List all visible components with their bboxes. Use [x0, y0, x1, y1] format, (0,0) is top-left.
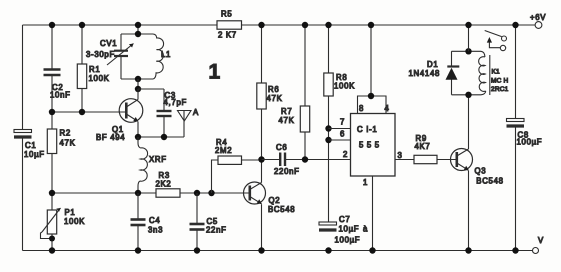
svg-text:10µF: 10µF	[339, 225, 360, 234]
svg-text:8: 8	[359, 104, 364, 113]
resistor R8	[324, 22, 355, 222]
node dot C2/R2	[49, 109, 55, 115]
capacitor C1	[14, 130, 45, 160]
svg-text:D1: D1	[427, 60, 438, 69]
relay contact switch	[485, 31, 507, 51]
resistor R7	[279, 22, 310, 163]
node dot relay bottom	[465, 92, 471, 98]
wire left vertical (C1 branch)	[22, 25, 24, 251]
svg-text:MC H: MC H	[491, 78, 509, 85]
node dot P1 bottom rail	[49, 247, 55, 253]
relay coil K1	[452, 51, 509, 95]
svg-text:100µF: 100µF	[335, 236, 361, 245]
node dot top rail C2	[49, 22, 55, 28]
svg-text:à: à	[363, 225, 368, 234]
svg-text:C4: C4	[149, 216, 160, 225]
resistor R4 with leg	[212, 138, 262, 193]
svg-text:3n3: 3n3	[148, 226, 163, 235]
svg-text:22nF: 22nF	[206, 226, 227, 235]
svg-text:1: 1	[209, 61, 221, 84]
antenna A	[178, 108, 200, 137]
resistor R5	[217, 10, 242, 40]
inductor L1	[121, 34, 171, 79]
transistor Q1 BF494	[96, 89, 143, 142]
svg-text:4,7pF: 4,7pF	[164, 98, 187, 107]
node dot R1 base	[79, 109, 85, 115]
wire bottom rail	[23, 250, 533, 252]
svg-text:100K: 100K	[64, 217, 85, 226]
svg-text:220nF: 220nF	[274, 167, 300, 176]
svg-text:A: A	[193, 108, 199, 117]
node dot pin6	[325, 137, 331, 143]
wire emitter node line	[138, 136, 184, 138]
svg-text:3-30pF: 3-30pF	[86, 50, 115, 59]
transistor Q2 BC548	[244, 160, 296, 254]
capacitor C6	[262, 143, 351, 176]
svg-text:10nF: 10nF	[50, 91, 71, 100]
svg-text:C I-1: C I-1	[357, 125, 377, 134]
node dot top rail R1	[79, 22, 85, 28]
svg-text:100K: 100K	[334, 82, 355, 91]
svg-text:1N4148: 1N4148	[409, 69, 441, 78]
capacitor C5	[190, 193, 227, 254]
terminal V	[533, 236, 545, 254]
wire base node line y=112	[52, 111, 127, 113]
svg-text:BC548: BC548	[268, 205, 295, 214]
svg-text:2M2: 2M2	[215, 146, 232, 155]
resistor R6	[257, 22, 283, 157]
wire tank to collector node	[137, 79, 139, 89]
svg-text:R7: R7	[281, 107, 292, 116]
node dot tank top	[135, 31, 141, 37]
svg-text:CV1: CV1	[100, 39, 117, 48]
node dot relay top	[465, 48, 471, 54]
svg-text:L1: L1	[161, 50, 171, 59]
node dot Q2 collector / pin2 line	[258, 156, 264, 162]
svg-text:2 K7: 2 K7	[218, 31, 237, 40]
svg-text:R1: R1	[89, 65, 100, 74]
node dot R4 leg	[208, 190, 214, 196]
resistor R9	[395, 134, 457, 164]
transistor Q3 BC548	[451, 95, 504, 254]
resistor R3	[156, 171, 181, 197]
wire tank feed	[137, 25, 139, 34]
svg-text:C1: C1	[25, 141, 36, 150]
svg-text:4: 4	[385, 104, 390, 113]
svg-text:7: 7	[340, 118, 345, 127]
svg-text:47K: 47K	[60, 139, 76, 148]
capacitor C2	[44, 70, 71, 100]
capacitor C4	[131, 193, 164, 254]
wire C2/R2/P1 column	[51, 25, 53, 251]
node dot C5 base	[194, 190, 200, 196]
wire relay to rail	[468, 25, 470, 51]
svg-text:BC548: BC548	[476, 176, 503, 185]
wire pin6 stub	[329, 139, 351, 141]
svg-text:C7: C7	[339, 215, 350, 224]
variable capacitor CV1	[86, 34, 134, 79]
svg-text:BF 494: BF 494	[96, 133, 125, 142]
svg-text:K1: K1	[492, 69, 501, 76]
wire pin7 stub	[329, 128, 351, 130]
svg-text:2K2: 2K2	[156, 180, 172, 189]
resistor R2	[47, 129, 75, 154]
svg-text:+6V: +6V	[530, 13, 546, 22]
resistor R1	[77, 25, 109, 112]
diode D1 1N4148	[409, 51, 460, 95]
inductor XRF	[138, 137, 167, 193]
svg-text:1: 1	[363, 178, 368, 187]
node dot pin7	[325, 125, 331, 131]
svg-text:47K: 47K	[279, 116, 295, 125]
svg-text:6: 6	[340, 130, 345, 139]
potentiometer P1	[41, 208, 86, 242]
svg-text:4K7: 4K7	[415, 142, 431, 151]
svg-text:100K: 100K	[89, 74, 110, 83]
capacitor C3	[138, 89, 187, 140]
svg-text:2RC1: 2RC1	[491, 86, 509, 93]
svg-text:C6: C6	[276, 143, 287, 152]
wire Q2 base line y=193	[52, 192, 249, 194]
svg-text:XRF: XRF	[149, 155, 167, 164]
wire top +6V rail	[23, 24, 536, 26]
svg-text:R5: R5	[221, 10, 232, 19]
svg-text:R6: R6	[268, 85, 279, 94]
svg-text:5 5 5: 5 5 5	[359, 141, 380, 150]
svg-text:47K: 47K	[267, 94, 283, 103]
svg-text:100µF: 100µF	[517, 138, 543, 147]
svg-text:V: V	[538, 236, 544, 245]
svg-text:R2: R2	[60, 129, 71, 138]
node dot tank bottom	[135, 76, 141, 82]
svg-text:Q2: Q2	[269, 196, 281, 205]
capacitor C8	[507, 22, 543, 254]
op-amp U1 555 timer CI-1	[340, 22, 395, 254]
terminal +6V	[530, 13, 546, 28]
svg-text:3: 3	[398, 151, 403, 160]
svg-text:P1: P1	[65, 208, 76, 217]
capacitor C7	[319, 215, 368, 254]
node dot collector	[135, 86, 141, 92]
svg-text:Q3: Q3	[475, 167, 487, 176]
svg-text:2: 2	[343, 150, 348, 159]
svg-text:10µF: 10µF	[24, 150, 45, 159]
